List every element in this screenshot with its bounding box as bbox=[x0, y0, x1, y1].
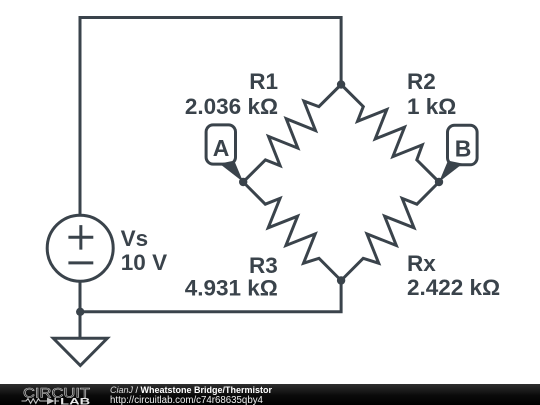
svg-text:Vs: Vs bbox=[121, 226, 149, 251]
wire ground stem bbox=[79, 312, 82, 339]
svg-text:B: B bbox=[455, 135, 472, 161]
svg-text:10 V: 10 V bbox=[121, 250, 167, 275]
footer url text bbox=[110, 395, 263, 405]
wire VS bottom to junction bbox=[79, 281, 82, 312]
svg-text:LAB: LAB bbox=[60, 396, 90, 405]
node: bridge bottom junction dot bbox=[337, 276, 345, 284]
CircuitLab logo bbox=[0, 384, 100, 405]
wire top loop: VS top to bridge top node bbox=[80, 18, 341, 216]
ground bbox=[53, 338, 107, 365]
wire bottom: junction to bridge bottom node bbox=[80, 281, 341, 312]
resistor R1 bbox=[243, 85, 341, 183]
node: ground junction dot bbox=[76, 308, 84, 316]
svg-text:Rx: Rx bbox=[407, 251, 436, 276]
diode triangle bbox=[47, 397, 55, 404]
node B pointer bbox=[439, 161, 463, 182]
logo wire+resistor+diode glyph bbox=[22, 397, 60, 404]
svg-text:R1: R1 bbox=[249, 69, 278, 94]
node B flag box bbox=[448, 125, 478, 165]
node A pointer bbox=[220, 161, 244, 182]
Vs minus sign bbox=[68, 261, 93, 264]
resistor Rx bbox=[341, 182, 439, 281]
node A junction dot bbox=[239, 178, 247, 186]
footer bar bbox=[0, 384, 540, 405]
Vs plus sign bbox=[68, 225, 93, 250]
node A flag box bbox=[206, 125, 235, 164]
svg-text:R3: R3 bbox=[249, 253, 278, 278]
footer title text bbox=[110, 385, 272, 395]
node: bridge top junction dot bbox=[337, 80, 345, 88]
svg-text:4.931 kΩ: 4.931 kΩ bbox=[185, 276, 278, 301]
svg-text:2.422 kΩ: 2.422 kΩ bbox=[407, 275, 500, 300]
svg-text:2.036 kΩ: 2.036 kΩ bbox=[185, 94, 278, 119]
resistor R2 bbox=[341, 85, 439, 183]
svg-text:1 kΩ: 1 kΩ bbox=[407, 94, 456, 119]
svg-text:R2: R2 bbox=[407, 69, 436, 94]
svg-text:A: A bbox=[213, 135, 230, 161]
voltage source Vs circle bbox=[47, 215, 113, 281]
node B junction dot bbox=[435, 178, 443, 186]
resistor R3 bbox=[243, 182, 341, 281]
